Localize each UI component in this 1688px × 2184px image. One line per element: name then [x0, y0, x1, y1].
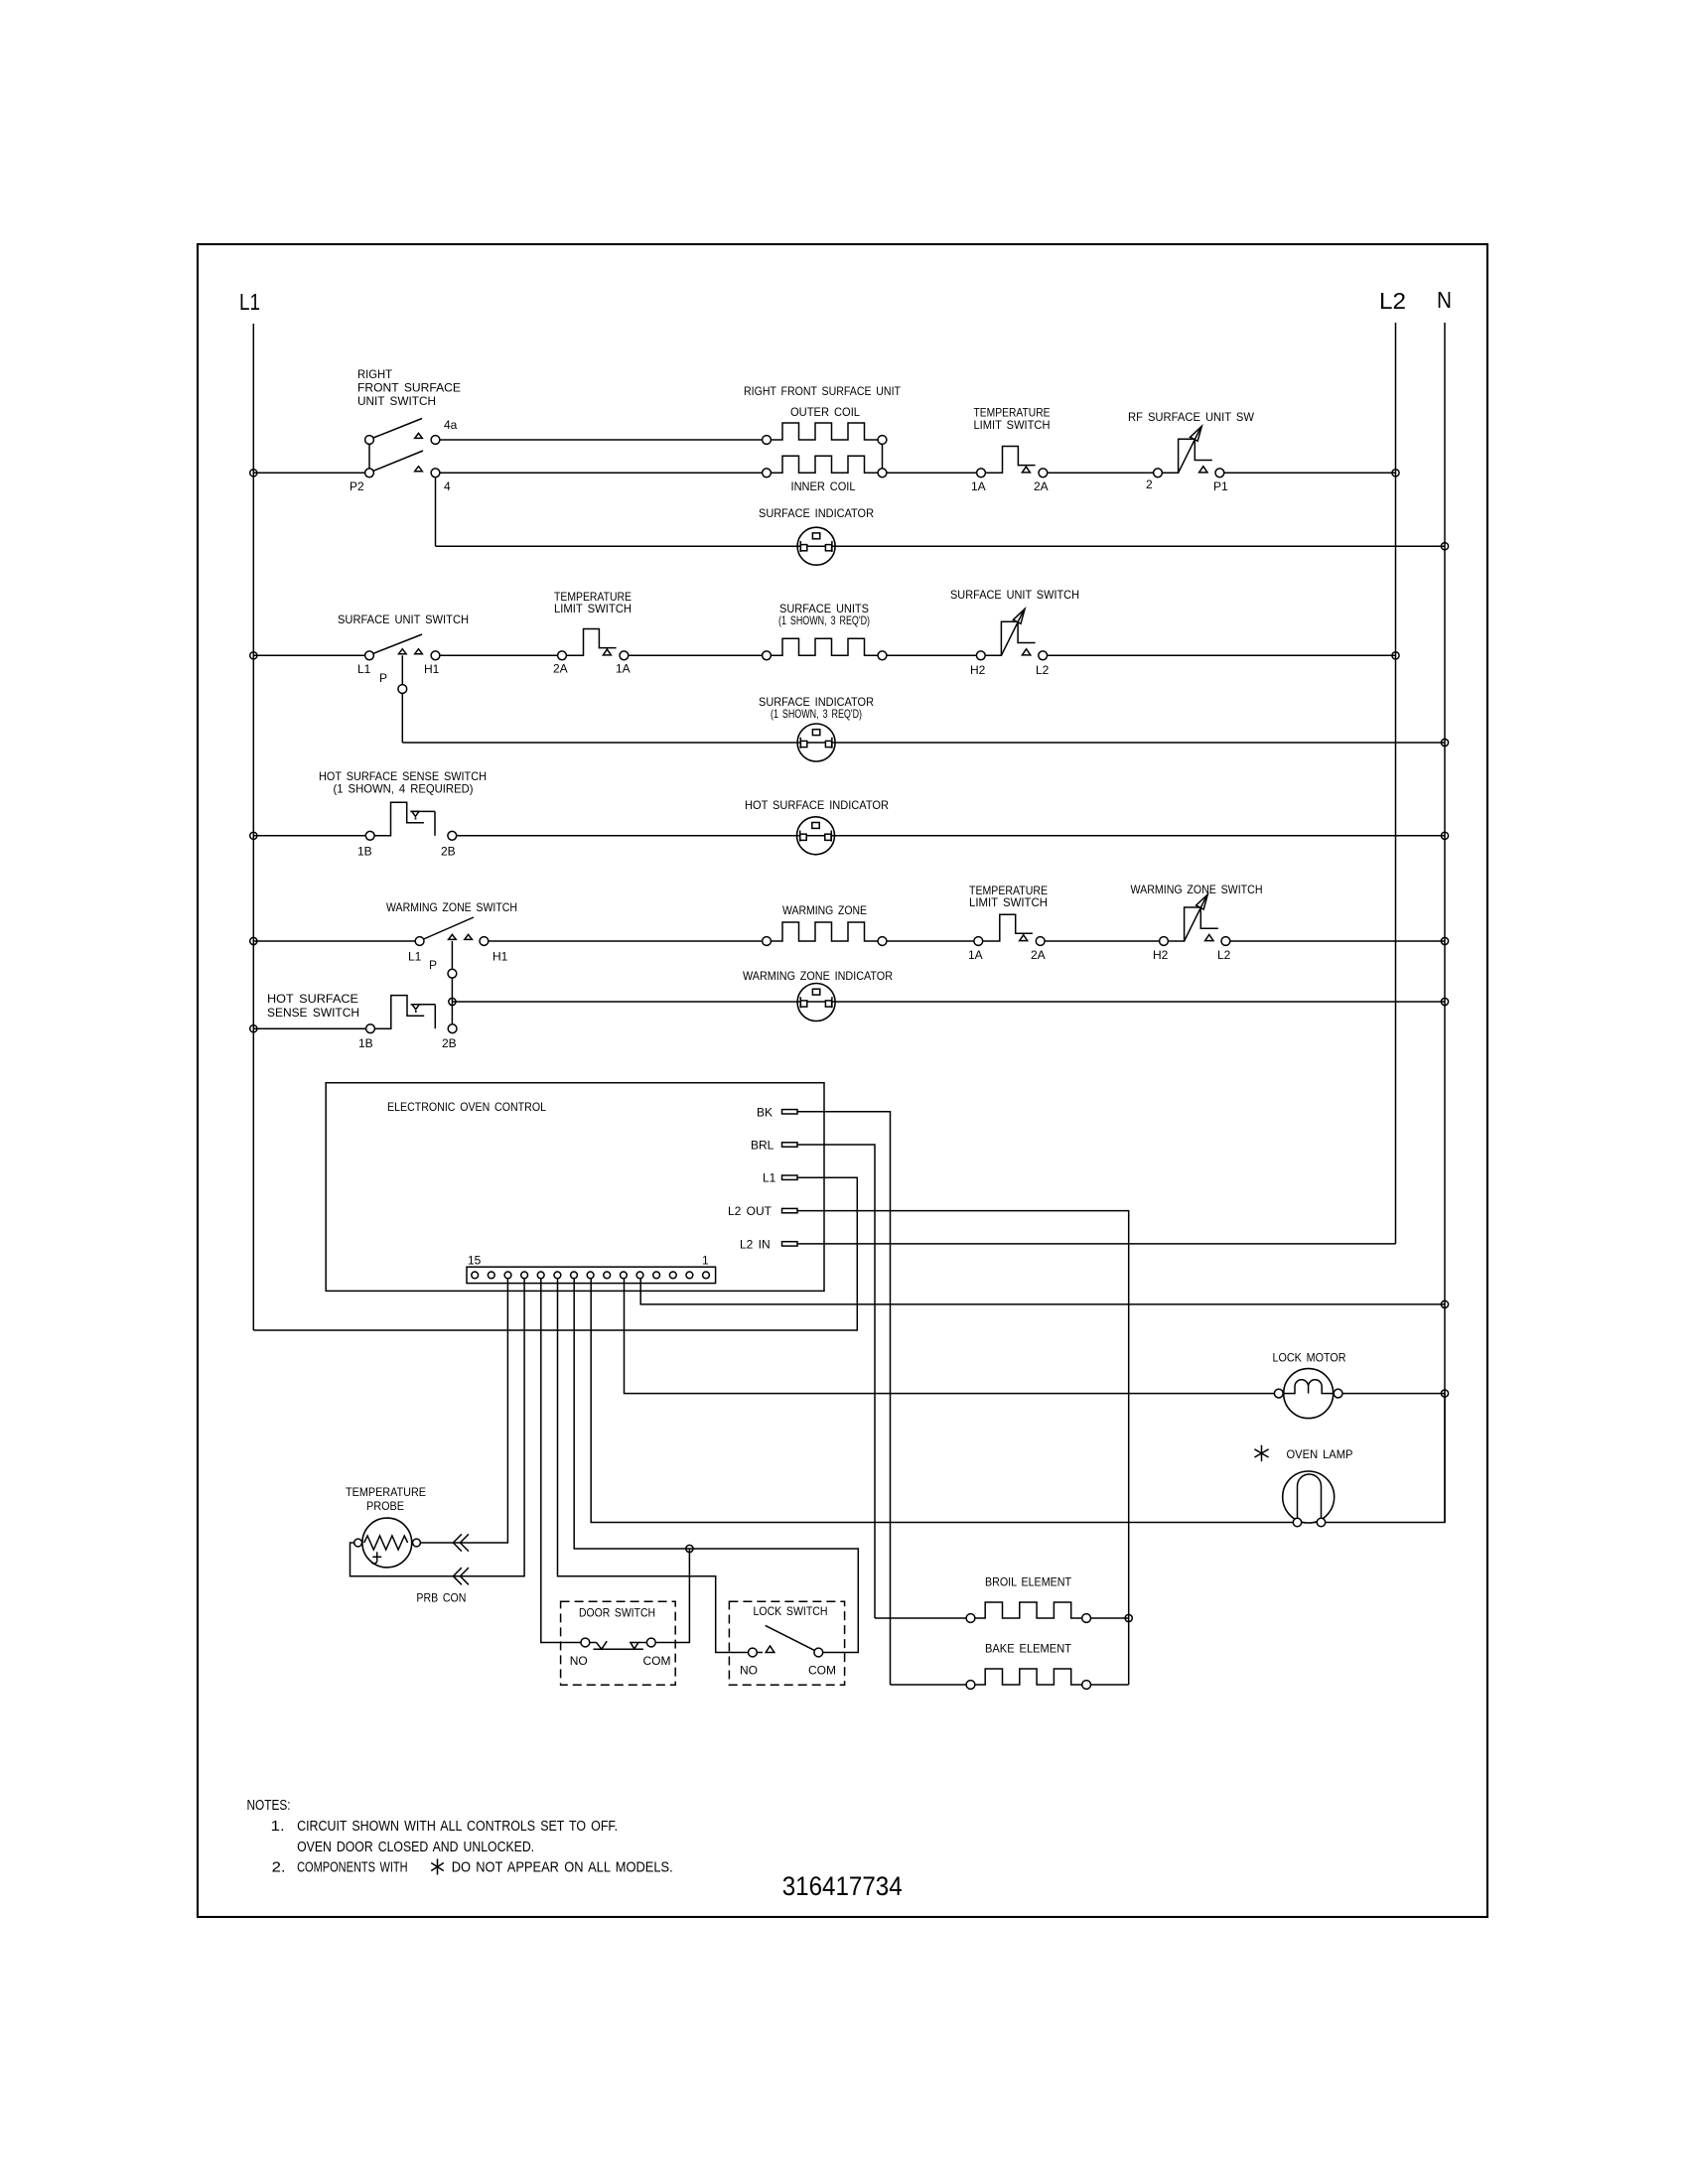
svg-text:SURFACE UNIT SWITCH: SURFACE UNIT SWITCH	[338, 613, 469, 626]
switch lock switch	[729, 1601, 844, 1685]
svg-text:OVEN DOOR CLOSED AND UNLOCKED.: OVEN DOOR CLOSED AND UNLOCKED.	[297, 1839, 534, 1855]
wire 2A to RF switch	[1048, 472, 1154, 474]
wire N bus vertical	[1444, 323, 1446, 1523]
resistor temperature probe	[362, 1518, 412, 1568]
wire L2 IN to L2 bus	[797, 1243, 1396, 1245]
wire BK to bake element	[797, 1112, 891, 1685]
node junction N row4	[1441, 937, 1448, 944]
lamp hot surface indicator	[797, 817, 835, 855]
svg-text:BRL: BRL	[751, 1139, 774, 1153]
node junction L1 row4b	[250, 1025, 257, 1032]
svg-text:4a: 4a	[444, 418, 458, 432]
connector chevron probe lower	[453, 1568, 462, 1584]
svg-text:L2: L2	[1217, 948, 1231, 962]
svg-text:OUTER COIL: OUTER COIL	[790, 405, 860, 419]
svg-text:H1: H1	[424, 662, 440, 676]
wire 2A to warming zone switch right	[1045, 940, 1160, 942]
svg-text:ELECTRONIC OVEN CONTROL: ELECTRONIC OVEN CONTROL	[387, 1100, 546, 1114]
coil warming zone	[771, 922, 878, 941]
svg-text:DOOR SWITCH: DOOR SWITCH	[579, 1606, 655, 1620]
wire door com riser	[655, 1549, 689, 1643]
svg-text:RF SURFACE UNIT SW: RF SURFACE UNIT SW	[1128, 410, 1255, 424]
svg-text:COM: COM	[643, 1654, 671, 1668]
svg-text:L2: L2	[1036, 663, 1050, 677]
svg-text:BAKE ELEMENT: BAKE ELEMENT	[985, 1642, 1072, 1656]
wire inner coil to 1A	[887, 472, 977, 474]
svg-text:WARMING ZONE INDICATOR: WARMING ZONE INDICATOR	[743, 969, 893, 983]
svg-text:316417734: 316417734	[782, 1871, 903, 1901]
node junction N row3	[1441, 832, 1448, 839]
svg-text:2.: 2.	[272, 1859, 286, 1876]
node junction N lock motor	[1441, 1390, 1448, 1397]
svg-text:L1: L1	[357, 662, 371, 676]
svg-text:DO NOT APPEAR ON ALL MODELS.: DO NOT APPEAR ON ALL MODELS.	[452, 1859, 673, 1876]
wire H1 to limit switch row2	[440, 654, 558, 656]
node junction L1 row4	[250, 937, 257, 944]
symbol asterisk note	[437, 1859, 439, 1875]
svg-text:LOCK MOTOR: LOCK MOTOR	[1273, 1351, 1346, 1365]
svg-text:1A: 1A	[971, 479, 986, 493]
connector chevron probe upper	[453, 1534, 462, 1551]
svg-text:1B: 1B	[358, 1036, 373, 1050]
node junction door com tap	[686, 1545, 693, 1552]
heater bake element	[891, 1684, 967, 1686]
svg-text:P: P	[429, 958, 437, 972]
wire surface indicator row1	[436, 545, 1446, 547]
svg-text:P: P	[379, 671, 387, 685]
svg-text:NO: NO	[570, 1654, 588, 1668]
wire terminal 4 drop	[435, 478, 437, 547]
wire coil to H2 row2	[887, 654, 977, 656]
wire pin10 to lock motor row	[625, 1279, 1275, 1394]
svg-text:PRB CON: PRB CON	[416, 1591, 466, 1605]
svg-text:N: N	[1437, 287, 1452, 313]
wire L1 to 1B row4b	[253, 1027, 365, 1029]
svg-text:1B: 1B	[357, 845, 372, 859]
wire L2 OUT down	[797, 1211, 1129, 1685]
switch warming zone switch left	[424, 917, 474, 939]
svg-text:2A: 2A	[1034, 479, 1049, 493]
wire L1 to surface unit switch	[253, 654, 364, 656]
switch temperature limit switch row1	[985, 447, 1035, 474]
svg-text:TEMPERATURE: TEMPERATURE	[346, 1485, 426, 1499]
svg-text:UNIT SWITCH: UNIT SWITCH	[357, 394, 436, 408]
wire pin6 to lock switch NO	[558, 1279, 749, 1653]
switch temperature limit switch row4	[983, 914, 1033, 941]
wire L2 terminal to L2 bus	[1048, 654, 1396, 656]
svg-text:L1: L1	[408, 950, 422, 964]
svg-text:WARMING ZONE: WARMING ZONE	[782, 903, 867, 917]
lamp surface indicator row1	[797, 527, 835, 565]
svg-text:2B: 2B	[442, 1036, 457, 1050]
svg-text:H1: H1	[492, 950, 508, 964]
svg-text:LIMIT SWITCH: LIMIT SWITCH	[554, 602, 632, 615]
svg-text:4: 4	[444, 479, 451, 493]
svg-text:2A: 2A	[553, 662, 568, 676]
svg-text:SENSE SWITCH: SENSE SWITCH	[267, 1006, 359, 1020]
wire L1 to 1B row3	[253, 835, 365, 837]
wire 2B to hot surface indicator	[457, 835, 1445, 837]
svg-text:1A: 1A	[968, 948, 983, 962]
symbol asterisk oven lamp	[1261, 1445, 1263, 1461]
coil surface units	[771, 638, 878, 655]
svg-text:WARMING ZONE SWITCH: WARMING ZONE SWITCH	[1131, 883, 1263, 896]
wire pin11 to N	[640, 1279, 1445, 1304]
node junction L1 row2	[250, 652, 257, 659]
svg-text:P1: P1	[1213, 479, 1228, 493]
svg-text:2: 2	[1146, 478, 1153, 491]
wire pin8 to oven lamp row	[591, 1279, 1445, 1523]
svg-text:RIGHT FRONT SURFACE UNIT: RIGHT FRONT SURFACE UNIT	[744, 384, 902, 398]
svg-text:LIMIT SWITCH: LIMIT SWITCH	[974, 418, 1051, 432]
node junction N indicator row4	[1441, 998, 1448, 1005]
wire 1A to surface units coil	[629, 654, 763, 656]
svg-text:LIMIT SWITCH: LIMIT SWITCH	[969, 895, 1048, 909]
wire EOC L1 to L1 bus	[253, 1177, 857, 1330]
svg-text:H2: H2	[1153, 948, 1169, 962]
node junction L1 row1	[250, 470, 257, 477]
motor lock motor	[1284, 1369, 1334, 1419]
wire pin3 to probe	[421, 1279, 508, 1543]
switch hot surface sense switch row3	[374, 802, 424, 836]
svg-text:1A: 1A	[616, 662, 631, 676]
wire P1 to L2	[1224, 472, 1396, 474]
svg-text:PROBE: PROBE	[366, 1499, 404, 1513]
node junction L2 row2	[1392, 652, 1399, 659]
svg-text:HOT SURFACE: HOT SURFACE	[267, 992, 358, 1006]
svg-text:L1: L1	[763, 1171, 776, 1185]
wire P drop row2	[401, 655, 403, 743]
border frame	[198, 244, 1487, 1917]
node junction broil L2OUT	[1125, 1614, 1132, 1621]
svg-text:15: 15	[468, 1254, 482, 1268]
terminal P row2	[398, 685, 407, 694]
svg-text:P2: P2	[350, 479, 364, 493]
node junction L2 row1	[1392, 470, 1399, 477]
terminal P row4	[448, 969, 457, 978]
lamp oven lamp	[1283, 1471, 1335, 1523]
svg-text:NO: NO	[740, 1664, 758, 1678]
switch right front surface unit switch	[368, 444, 370, 469]
wire coil link vertical	[882, 444, 884, 469]
svg-text:RIGHT: RIGHT	[357, 367, 393, 381]
svg-text:SURFACE UNIT SWITCH: SURFACE UNIT SWITCH	[950, 588, 1079, 602]
svg-text:HOT SURFACE INDICATOR: HOT SURFACE INDICATOR	[745, 798, 889, 812]
svg-text:BK: BK	[757, 1105, 773, 1119]
svg-text:FRONT SURFACE: FRONT SURFACE	[357, 381, 461, 395]
svg-text:WARMING ZONE SWITCH: WARMING ZONE SWITCH	[386, 900, 517, 914]
wire L2 bus vertical	[1395, 323, 1397, 1244]
wire L1 to warming zone switch	[253, 940, 415, 942]
wire BRL to broil element	[797, 1145, 875, 1618]
node junction N indicator row1	[1441, 543, 1448, 550]
svg-text:2B: 2B	[441, 845, 456, 859]
switch hot surface sense switch row4b	[374, 996, 424, 1029]
wire L2 terminal to N row4	[1230, 940, 1445, 942]
coil right front surface unit outer coil	[771, 423, 878, 440]
wire terminal 4a to outer coil	[440, 439, 763, 441]
switch surface unit switch left	[373, 634, 422, 653]
lamp warming zone indicator	[797, 984, 835, 1022]
svg-text:LOCK SWITCH: LOCK SWITCH	[754, 1604, 828, 1618]
switch door switch	[561, 1601, 676, 1685]
svg-text:L1: L1	[239, 289, 260, 315]
svg-text:L2: L2	[1379, 288, 1406, 314]
svg-text:INNER COIL: INNER COIL	[791, 479, 856, 493]
switch RF surface unit sw	[1162, 439, 1195, 473]
wire lock motor to N	[1342, 1393, 1445, 1395]
wire warming zone indicator row	[452, 1001, 1445, 1003]
svg-text:H2: H2	[970, 663, 986, 677]
electronic oven control box	[326, 1083, 824, 1292]
wire surface indicator row2	[402, 742, 1445, 744]
wire pin5 to door switch NO	[541, 1279, 581, 1643]
switch warming zone switch right	[1168, 907, 1200, 941]
svg-text:BROIL ELEMENT: BROIL ELEMENT	[985, 1575, 1072, 1589]
svg-text:L2 OUT: L2 OUT	[728, 1204, 773, 1218]
wire coil to 1A row4	[887, 940, 974, 942]
wire H1 to warming zone coil	[489, 940, 763, 942]
lamp surface indicator row2	[797, 724, 835, 761]
svg-text:L2 IN: L2 IN	[740, 1237, 771, 1251]
node junction L1 row3	[250, 832, 257, 839]
svg-text:2A: 2A	[1031, 948, 1046, 962]
wire P drop row4	[451, 941, 453, 1024]
coil right front surface unit inner coil	[771, 456, 878, 473]
wire L1 bus vertical	[252, 324, 254, 1330]
heater broil element	[875, 1617, 966, 1619]
switch temperature limit switch row2	[566, 629, 616, 656]
svg-text:COMPONENTS WITH: COMPONENTS WITH	[297, 1859, 408, 1876]
node junction N indicator row2	[1441, 739, 1448, 746]
wire L1 to P2	[253, 472, 364, 474]
wire pin7 to L1 net lock com	[574, 1279, 858, 1653]
node junction P indicator row4	[449, 998, 456, 1005]
svg-text:(1 SHOWN, 3 REQ'D): (1 SHOWN, 3 REQ'D)	[778, 614, 870, 627]
svg-text:(1 SHOWN, 3 REQ'D): (1 SHOWN, 3 REQ'D)	[771, 707, 862, 721]
svg-text:(1 SHOWN, 4 REQUIRED): (1 SHOWN, 4 REQUIRED)	[334, 782, 474, 796]
svg-text:COM: COM	[808, 1664, 836, 1678]
svg-text:SURFACE INDICATOR: SURFACE INDICATOR	[759, 506, 874, 520]
svg-text:1: 1	[702, 1254, 709, 1268]
switch surface unit switch right	[985, 621, 1018, 655]
wire terminal 4 to inner coil	[440, 472, 763, 474]
svg-text:CIRCUIT SHOWN WITH ALL CONTROL: CIRCUIT SHOWN WITH ALL CONTROLS SET TO O…	[297, 1818, 618, 1835]
node junction N pin11	[1441, 1300, 1448, 1307]
svg-text:OVEN LAMP: OVEN LAMP	[1287, 1447, 1353, 1461]
connector strip EOC pins 15..1	[467, 1267, 716, 1283]
svg-text:1.: 1.	[271, 1818, 285, 1835]
svg-text:NOTES:: NOTES:	[247, 1797, 291, 1814]
wire pin4 to probe return	[351, 1279, 525, 1576]
